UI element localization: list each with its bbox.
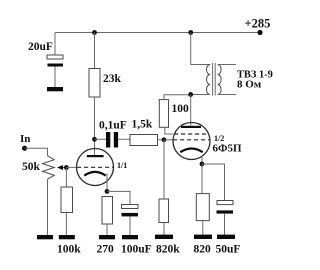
ground (50uF) — [217, 235, 235, 239]
wire secondary top lead — [218, 64, 236, 66]
capacitor 50uF — [217, 201, 233, 205]
wire rail to transformer primary — [191, 33, 210, 65]
node junction rail/23k — [92, 30, 97, 35]
node junction rail/transformer — [188, 30, 193, 35]
wire wiper down to R 100k — [65, 168, 67, 188]
wire C 20uF to ground — [54, 67, 56, 88]
svg-text:8 Ом: 8 Ом — [237, 79, 262, 91]
ground (820k) — [155, 235, 173, 239]
transformer TVZ primary winding — [207, 65, 210, 95]
wire 820 to ground — [202, 221, 204, 235]
tube V2 cathode arc — [180, 149, 202, 153]
svg-text:0,1uF: 0,1uF — [99, 120, 127, 132]
wire cathode node to C 100uF — [107, 191, 130, 204]
resistor 270 — [102, 197, 113, 225]
svg-text:1,5k: 1,5k — [132, 119, 153, 131]
tube V1 anode plate — [87, 155, 104, 157]
capacitor 0,1uF — [106, 132, 110, 148]
ground (20uF) — [47, 87, 63, 91]
node primary/anode junction — [188, 92, 193, 97]
node wiper junction — [64, 165, 69, 170]
resistor 1,5k — [130, 135, 158, 146]
wire cathode node to C 50uF — [202, 164, 225, 201]
node +285 terminal — [257, 30, 262, 35]
transformer TVZ secondary winding — [218, 65, 222, 95]
wire 100k to ground — [65, 213, 67, 236]
wire V1 cathode lead — [106, 174, 108, 192]
svg-text:6Ф5П: 6Ф5П — [213, 143, 242, 155]
svg-text:100k: 100k — [57, 244, 81, 256]
svg-text:820: 820 — [194, 244, 212, 256]
wire wiper to V1 grid — [66, 166, 76, 168]
svg-text:820k: 820k — [156, 244, 180, 256]
tube V1 cathode arc — [84, 172, 105, 176]
wire anode node to C 0.1uF — [95, 138, 107, 140]
resistor 100 — [159, 100, 168, 128]
wire V2 cathode lead — [201, 156, 203, 164]
ground (100k) — [59, 235, 75, 239]
wire 100uF to ground — [129, 216, 131, 235]
wire rail to R 23k — [94, 33, 96, 69]
wire top supply rail — [55, 32, 260, 34]
wire secondary bottom lead — [218, 94, 236, 96]
tube V2 anode plate — [181, 126, 201, 128]
svg-text:100uF: 100uF — [121, 244, 152, 256]
wire pot bottom to ground — [47, 179, 49, 235]
tube V1 envelope — [77, 149, 114, 186]
wire 23k to anode node — [94, 97, 96, 155]
tube V2 g1 (dashed) — [173, 139, 210, 141]
resistor 820 — [196, 194, 209, 221]
node V1 cathode junction — [105, 189, 110, 194]
wire In to pot top — [25, 148, 48, 156]
potentiometer 50k zigzag — [43, 156, 55, 179]
svg-text:270: 270 — [97, 244, 115, 256]
tube V2 envelope — [173, 123, 210, 160]
wire 820k to ground — [163, 223, 165, 236]
wire grid node to V2 g1 — [164, 139, 173, 141]
wire V2 anode lead — [190, 95, 192, 126]
svg-text:In: In — [20, 133, 30, 145]
ground (270) — [99, 235, 115, 239]
svg-text:1/1: 1/1 — [117, 161, 127, 170]
wire 0.1uF to R 1,5k — [118, 138, 130, 140]
wire rail to C 20uF — [54, 33, 56, 56]
tube V2 g2 (dashed) — [174, 133, 209, 135]
svg-text:23k: 23k — [103, 73, 122, 85]
wire 50uF to ground — [224, 214, 226, 235]
svg-text:20uF: 20uF — [28, 41, 53, 53]
wire 100 bottom to V2 g2 — [165, 127, 173, 134]
node V2 cathode junction — [200, 162, 205, 167]
resistor 23k — [89, 69, 100, 98]
resistor 820k — [159, 199, 169, 223]
node V2 g1 junction — [162, 137, 167, 142]
capacitor 100uF — [122, 205, 139, 209]
wire cathode node to R 820 — [201, 164, 203, 194]
capacitor 20uF — [47, 55, 63, 59]
node anode V1 junction — [92, 137, 97, 142]
wire 100 top to anode junction — [164, 95, 191, 100]
transformer core — [212, 63, 214, 96]
wire grid node down to R 820k — [163, 140, 165, 199]
svg-text:50k: 50k — [22, 161, 41, 173]
svg-text:+285: +285 — [245, 17, 271, 31]
ground (820) — [194, 235, 212, 239]
ground (pot) — [37, 235, 53, 239]
ground (100uF) — [122, 235, 138, 239]
svg-text:100: 100 — [172, 103, 190, 115]
tube V1 grid (dashed) — [77, 166, 113, 168]
wire 270 to ground — [106, 224, 108, 235]
wire 1,5k to grid node — [158, 139, 165, 141]
pot wiper arrow — [62, 167, 67, 169]
node In terminal — [22, 146, 27, 151]
resistor 100k — [61, 187, 73, 213]
wire primary bottom lead — [191, 94, 210, 96]
svg-text:50uF: 50uF — [216, 244, 241, 256]
